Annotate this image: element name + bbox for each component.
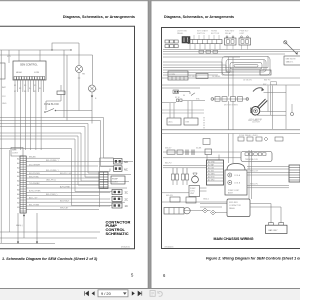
wire lamp leads (91, 92, 93, 124)
svg-text:PUMP: PUMP (112, 179, 118, 181)
svg-text:BLK/GN-T: BLK/GN-T (60, 201, 70, 203)
lamp DS2 (76, 66, 83, 73)
wires module links (162, 158, 242, 213)
svg-text:KEY: KEY (7, 56, 12, 58)
svg-text:3C: 3C (125, 191, 128, 195)
svg-text:A705-GY/BK: A705-GY/BK (29, 190, 41, 193)
svg-text:BAT-ONY: BAT-ONY (269, 229, 279, 232)
diamond splice (264, 137, 268, 141)
diagonal wire with eyelet (284, 41, 297, 54)
svg-text:J841-PK ( ): J841-PK ( ) (46, 180, 56, 182)
wire left edge vertical (0, 50, 2, 243)
svg-text:2C: 2C (125, 197, 128, 201)
node junction (70, 49, 71, 50)
button first page (85, 291, 89, 295)
wire stubs resistors (173, 180, 187, 185)
lamp wire labels (95, 89, 98, 101)
svg-text:A9: A9 (17, 193, 19, 196)
battery BT1 (269, 223, 274, 226)
wire stubs bar to bus (190, 44, 220, 50)
gap between pages (148, 0, 152, 288)
svg-text:09062016: 09062016 (165, 247, 175, 249)
svg-text:861-GY/BK ( ): 861-GY/BK ( ) (46, 170, 59, 172)
pump motor symbol (193, 173, 197, 176)
wire drops with arrows (18, 213, 37, 242)
button prev page (92, 291, 95, 295)
svg-text:A3: A3 (17, 166, 19, 169)
control module box (189, 186, 200, 197)
svg-text:705-WH/BK: 705-WH/BK (29, 183, 40, 185)
legend box right (284, 56, 301, 65)
svg-text:COIL B: COIL B (234, 183, 241, 185)
boxes mid-left (167, 118, 181, 125)
button last page (138, 291, 142, 295)
relay K2 (225, 38, 237, 45)
svg-text:863-PU / GR: 863-PU / GR (60, 173, 72, 175)
vertical feeders (268, 85, 292, 129)
svg-text:A4 SIG: A4 SIG (208, 170, 214, 173)
svg-text:PANEL: PANEL (229, 207, 235, 210)
lower strip with round end (164, 208, 184, 215)
wire drops harness pair (229, 101, 234, 130)
loop rings (222, 57, 270, 76)
nested loop bus (163, 56, 268, 75)
svg-text:A1: A1 (17, 158, 19, 161)
junction box rounded (241, 152, 272, 162)
switch box S2 (dark) (182, 37, 190, 44)
bus junction cells (199, 50, 218, 53)
harness dumbbell (211, 97, 249, 102)
top bus wires (163, 50, 300, 58)
contact 3C (112, 190, 122, 195)
wire feeder left (9, 150, 11, 232)
svg-text:SCHEMATIC: SCHEMATIC (106, 231, 129, 236)
ecu box right (207, 160, 224, 185)
node junction (51, 49, 52, 50)
contact 2C (112, 196, 122, 201)
wire lower horizontals (0, 232, 100, 238)
svg-text:FWD REV: FWD REV (229, 202, 238, 204)
wire stubs relays to bus (227, 45, 248, 50)
svg-text:16 GA GN: 16 GA GN (243, 79, 252, 82)
svg-text:Diagrams, Schematics, or Arran: Diagrams, Schematics, or Arrangements (164, 15, 234, 19)
svg-text:PANEL: PANEL (177, 32, 184, 35)
bus pair (163, 166, 206, 168)
toolbar top border (0, 288, 300, 289)
svg-text:SEE SHEET 2: SEE SHEET 2 (248, 120, 262, 122)
inline connectors (186, 150, 194, 156)
svg-text:CONN: CONN (169, 74, 175, 76)
svg-text:UNIT: UNIT (240, 33, 245, 35)
ground splices (203, 208, 208, 213)
svg-text:A7: A7 (17, 184, 19, 187)
svg-text:09062015: 09062015 (121, 247, 131, 249)
svg-text:FUSE BLOCK: FUSE BLOCK (44, 103, 60, 106)
nested bus loop wires (0, 118, 114, 206)
svg-text:CONT: CONT (112, 182, 118, 184)
fuse diagonal striped (257, 99, 267, 109)
branch wire labels (29, 157, 72, 210)
wire top bus (0, 43, 93, 85)
section divider wires (162, 129, 301, 131)
relay pin labels (175, 95, 200, 101)
svg-text:861-GY/BK: 861-GY/BK (29, 204, 40, 206)
label tick wires (194, 35, 219, 40)
svg-text:A6 RTN: A6 RTN (208, 176, 215, 179)
coil K1 (111, 176, 125, 184)
eyelet small (291, 113, 294, 116)
svg-text:HIGH: HIGH (16, 72, 22, 74)
wire label smudges lower (165, 148, 209, 201)
wires to battery (250, 204, 281, 223)
svg-text:A3 IGN: A3 IGN (208, 167, 215, 170)
wires mid-left (162, 110, 205, 113)
connector strip A (168, 71, 188, 80)
diode arrow A1 (91, 96, 93, 99)
svg-text:12 GA RD: 12 GA RD (189, 75, 198, 78)
svg-text:CONT: CONT (12, 152, 18, 154)
contactor assembly dome (227, 164, 245, 171)
wire lever to bus (264, 92, 287, 94)
junction box small (260, 70, 271, 75)
svg-text:886-BK: 886-BK (29, 157, 36, 159)
wire below strip (23, 213, 25, 238)
terminal strip TB1 label box (11, 148, 23, 157)
fuse block F1 (57, 91, 65, 95)
svg-text:BUTTON: BUTTON (211, 33, 220, 35)
svg-text:35-BK: 35-BK (196, 148, 202, 150)
edge connector hatched (289, 165, 300, 182)
row label smudges (189, 75, 271, 81)
contact NO K1 (114, 159, 123, 165)
svg-text:85 30: 85 30 (175, 97, 180, 99)
wire drops to boxes (170, 101, 192, 118)
wire drops to harness (229, 57, 234, 97)
svg-text:B3: B3 (17, 207, 19, 209)
toolbar background (0, 288, 300, 300)
terminal strip branch wires (26, 158, 133, 209)
harness strip row (203, 137, 283, 145)
switch row boxes (167, 150, 175, 154)
svg-text:TABLE 1: TABLE 1 (286, 61, 295, 64)
svg-text:1. Schematic Diagram for SEM: 1. Schematic Diagram for SEM Controls (S… (2, 257, 98, 261)
controller U1 box (13, 61, 46, 80)
svg-text:WH-T-BT: WH-T-BT (60, 208, 69, 210)
wire drops upper (207, 134, 251, 200)
resistor drops (171, 168, 188, 180)
section wire row (162, 77, 301, 79)
svg-text:CONTACTOR: CONTACTOR (229, 204, 241, 207)
svg-text:MAIN CHASSIS WIRING: MAIN CHASSIS WIRING (214, 237, 254, 241)
svg-text:861-Y/GR ( ): 861-Y/GR ( ) (46, 194, 58, 196)
svg-text:A5 SEN: A5 SEN (208, 173, 215, 176)
svg-text:SEE NOTE: SEE NOTE (286, 59, 297, 61)
wire number labels under controller (2, 56, 42, 105)
svg-text:SEM: SEM (12, 150, 17, 152)
tool icon 2 (158, 292, 163, 297)
terminal bar TB2 (188, 40, 222, 44)
top label row (177, 30, 249, 36)
svg-text:A861-GY: A861-GY (250, 170, 259, 173)
wire rail to contacts (100, 158, 114, 207)
button next page (132, 291, 135, 295)
svg-text:ACC: ACC (169, 121, 174, 124)
svg-text:A791-P/BK: A791-P/BK (60, 185, 71, 188)
svg-text:Diagrams, Schematics, or Arran: Diagrams, Schematics, or Arrangements (63, 15, 135, 19)
switch row wires (163, 151, 241, 153)
connector row left (165, 40, 178, 48)
wires from controller terminals (15, 80, 44, 151)
wire fuse leads (46, 85, 61, 110)
svg-text:BAT +: BAT + (263, 83, 269, 86)
schematic title block text (106, 219, 131, 235)
connector J2 cluster (99, 172, 108, 189)
wires ecu to right (247, 167, 289, 188)
switch S1 (46, 109, 54, 113)
contact 1C (112, 203, 122, 208)
lamp DS1 (89, 85, 96, 92)
svg-text:B2: B2 (17, 203, 19, 205)
svg-text:A7 SPD: A7 SPD (208, 179, 215, 182)
svg-text:452-OR/WH: 452-OR/WH (29, 164, 40, 166)
svg-text:336-GY: 336-GY (165, 148, 172, 150)
svg-text:RELAY: RELAY (225, 32, 232, 35)
svg-text:9 / 20: 9 / 20 (101, 291, 112, 296)
svg-text:MOTOR WIRES: MOTOR WIRES (224, 105, 238, 107)
svg-text:861-GY/BK ( ): 861-GY/BK ( ) (46, 160, 59, 162)
tool icon 1 (150, 291, 155, 297)
line above lower section (162, 201, 228, 203)
wire stubs to controller (9, 50, 40, 63)
svg-text:1C: 1C (125, 204, 128, 208)
svg-text:BLK - GY: BLK - GY (29, 197, 38, 199)
relay sub circuit (162, 88, 206, 103)
svg-text:NO: NO (124, 160, 128, 164)
terminal strip pin labels (17, 158, 19, 209)
svg-text:B1: B1 (17, 198, 19, 200)
svg-text:868-GY/BL: 868-GY/BL (29, 176, 40, 178)
wire vertical feeder pair (64, 50, 67, 121)
svg-text:863-PU/WH: 863-PU/WH (29, 173, 40, 175)
motor M1 (251, 107, 260, 116)
svg-text:NC: NC (124, 167, 128, 171)
page combo box (98, 290, 128, 297)
svg-text:B863-PU: B863-PU (250, 184, 259, 186)
dashed divider (203, 117, 205, 129)
svg-text:A8: A8 (17, 188, 19, 191)
small box on row (196, 74, 208, 79)
terminal strip TB1 (20, 156, 26, 213)
schematic frame left page (0, 26, 135, 249)
svg-text:COIL A: COIL A (234, 174, 241, 177)
svg-text:MAG(-): MAG(-) (16, 224, 23, 227)
svg-text:BAT FD: BAT FD (264, 79, 271, 82)
section divider wire (162, 84, 301, 86)
svg-text:ASSY: ASSY (228, 192, 234, 195)
svg-text:SWITCH: SWITCH (197, 33, 205, 35)
svg-text:Figure 2. Wiring Diagram for: Figure 2. Wiring Diagram for SEM Control… (206, 256, 300, 260)
junction box 2 (227, 199, 250, 217)
controller terminal row (14, 77, 45, 80)
svg-text:86: 86 (183, 95, 185, 97)
svg-text:443-GN: 443-GN (166, 195, 173, 197)
svg-text:14 GA BK: 14 GA BK (212, 75, 221, 78)
wires motor to feeders (257, 112, 286, 116)
svg-text:GND: GND (2, 103, 7, 105)
lever arm (253, 88, 262, 92)
svg-text:SEM CONTROL: SEM CONTROL (20, 64, 38, 67)
svg-text:A2: A2 (17, 162, 19, 165)
small boxes lower left (170, 197, 180, 202)
svg-text:TERM BLOCK: TERM BLOCK (245, 159, 259, 161)
wire switch to feeder (56, 110, 92, 112)
svg-text:IGN: IGN (186, 122, 190, 124)
svg-text:A4: A4 (17, 171, 19, 174)
svg-text:A2 BAT: A2 BAT (208, 164, 215, 167)
svg-text:A5: A5 (17, 175, 19, 178)
component edge module (cut off) (0, 63, 5, 79)
relay K3 (239, 38, 251, 45)
svg-text:861-PU: 861-PU (165, 163, 172, 165)
svg-text:GND-1: GND-1 (203, 199, 209, 201)
top viewport edge line (0, 0, 300, 1)
svg-text:FUSE PANEL LINKS: FUSE PANEL LINKS (239, 134, 258, 137)
svg-text:A1 GND: A1 GND (208, 161, 215, 164)
schematic frame right page (162, 28, 301, 249)
svg-text:A6: A6 (17, 180, 19, 183)
wire lowest (0, 243, 55, 245)
contact NC K1 (114, 166, 123, 172)
